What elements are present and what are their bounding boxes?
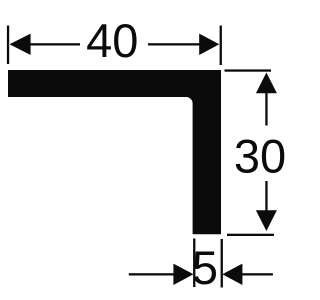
dim 30: bottom extension line — [227, 234, 274, 236]
dim 5: right leader line — [241, 273, 273, 275]
svg-text:30: 30 — [234, 129, 286, 182]
dim 40: right arrowhead — [199, 34, 219, 55]
dim 5: left arrowhead — [173, 264, 193, 285]
dim 40: right extension line — [220, 26, 222, 66]
dim 40: left arrowhead — [10, 34, 31, 55]
dim 30: down arrowhead — [256, 210, 277, 231]
L-profile body — [8, 70, 221, 234]
dim 40: left line segment — [30, 43, 81, 45]
dim 5: right extension line — [221, 239, 223, 288]
dim 40: left extension line — [7, 26, 9, 65]
dim 30: top extension line — [225, 69, 272, 71]
svg-text:40: 40 — [86, 14, 138, 67]
dim 30: upper line segment — [265, 92, 267, 126]
dim 5: left extension line — [193, 239, 195, 288]
dim 30: lower line segment — [265, 181, 267, 211]
dim 5: left leader line — [129, 273, 175, 275]
dim 40: right line segment — [148, 43, 200, 45]
svg-text:5: 5 — [192, 241, 218, 294]
dim 5: right arrowhead — [222, 264, 242, 285]
dim 30: up arrowhead — [256, 73, 277, 94]
